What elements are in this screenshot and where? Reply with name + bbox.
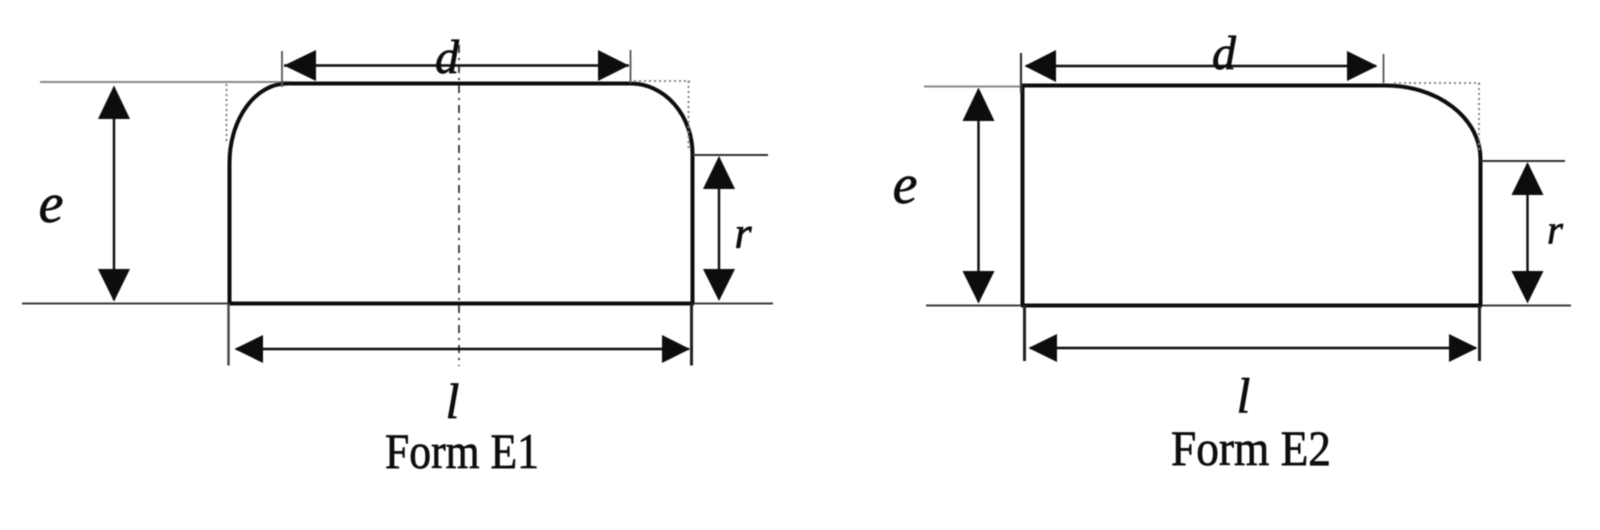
dotted construction corner vertical (E2) <box>1478 83 1480 153</box>
svg-text:Form E1: Form E1 <box>385 423 539 479</box>
dimension arrow r (E1) <box>718 158 720 298</box>
arrowhead l left (E2) <box>1029 334 1058 362</box>
arrowhead e bottom (E1) <box>98 269 130 302</box>
dimension line d (E1) <box>284 64 629 66</box>
dotted construction corner vertical (E1) <box>688 81 690 150</box>
bottom edge of section (E1) <box>228 302 694 306</box>
baseline (E2) <box>926 305 1571 307</box>
dimension line l (E1) <box>236 348 689 350</box>
dimension arrow r (E2) <box>1526 164 1528 300</box>
arrowhead e bottom (E2) <box>963 271 995 304</box>
arrowhead l right (E2) <box>1449 334 1478 362</box>
outline of wheel section Form E1 <box>230 84 693 304</box>
arrowhead e top (E2) <box>963 88 995 122</box>
dimension line l (E2) <box>1030 347 1476 349</box>
dotted construction corner horizontal (E2) <box>1394 82 1480 84</box>
extension tick left for d (E2) <box>1020 53 1022 93</box>
svg-text:d: d <box>1212 27 1237 80</box>
extension tick left for l (E1) <box>227 304 229 366</box>
bottom edge of section (E2) <box>1021 304 1482 308</box>
arrowhead r bottom (E1) <box>703 269 735 301</box>
svg-text:e: e <box>39 173 64 235</box>
dash-dot centerline (E1) <box>458 45 460 366</box>
arrowhead r bottom (E2) <box>1512 271 1544 304</box>
svg-text:l: l <box>1237 368 1251 424</box>
svg-text:d: d <box>435 31 460 84</box>
dimension line d (E2) <box>1026 65 1376 67</box>
dimension arrow e (E1) <box>113 88 115 300</box>
baseline (E1) <box>22 303 773 305</box>
extension line for r (E1) <box>693 154 768 156</box>
svg-text:r: r <box>734 209 752 258</box>
arrowhead e top (E1) <box>98 86 130 120</box>
extension line for r (E2) <box>1481 160 1565 162</box>
extension line: top tangent level (E1) <box>40 81 290 83</box>
arrowhead l right (E1) <box>662 335 690 363</box>
svg-text:e: e <box>893 154 918 216</box>
arrowhead r top (E2) <box>1512 162 1544 195</box>
dimension arrow e (E2) <box>977 90 979 302</box>
extension line: top tangent level (E2) <box>924 86 1023 88</box>
arrowhead d left (E2) <box>1025 50 1057 82</box>
svg-text:r: r <box>1547 207 1564 253</box>
arrowhead d right (E2) <box>1347 51 1378 81</box>
extension tick right for d (E1) <box>630 50 632 83</box>
outline of wheel section Form E2 <box>1023 86 1481 306</box>
extension tick right for l (E1) <box>690 304 693 366</box>
extension tick left for d (E1) <box>281 51 283 87</box>
extension tick right for d (E2) <box>1383 54 1385 83</box>
arrowhead r top (E1) <box>703 156 735 189</box>
dotted construction line left (E1) <box>226 84 228 143</box>
dotted construction corner horizontal (E1) <box>634 80 690 82</box>
arrowhead d right (E1) <box>598 50 629 81</box>
extension tick left for l (E2) <box>1023 306 1026 362</box>
svg-text:l: l <box>446 373 460 429</box>
arrowhead l left (E1) <box>235 335 264 363</box>
svg-text:Form E2: Form E2 <box>1171 420 1331 476</box>
arrowhead d left (E1) <box>284 50 316 81</box>
extension tick right for l (E2) <box>1478 306 1481 362</box>
